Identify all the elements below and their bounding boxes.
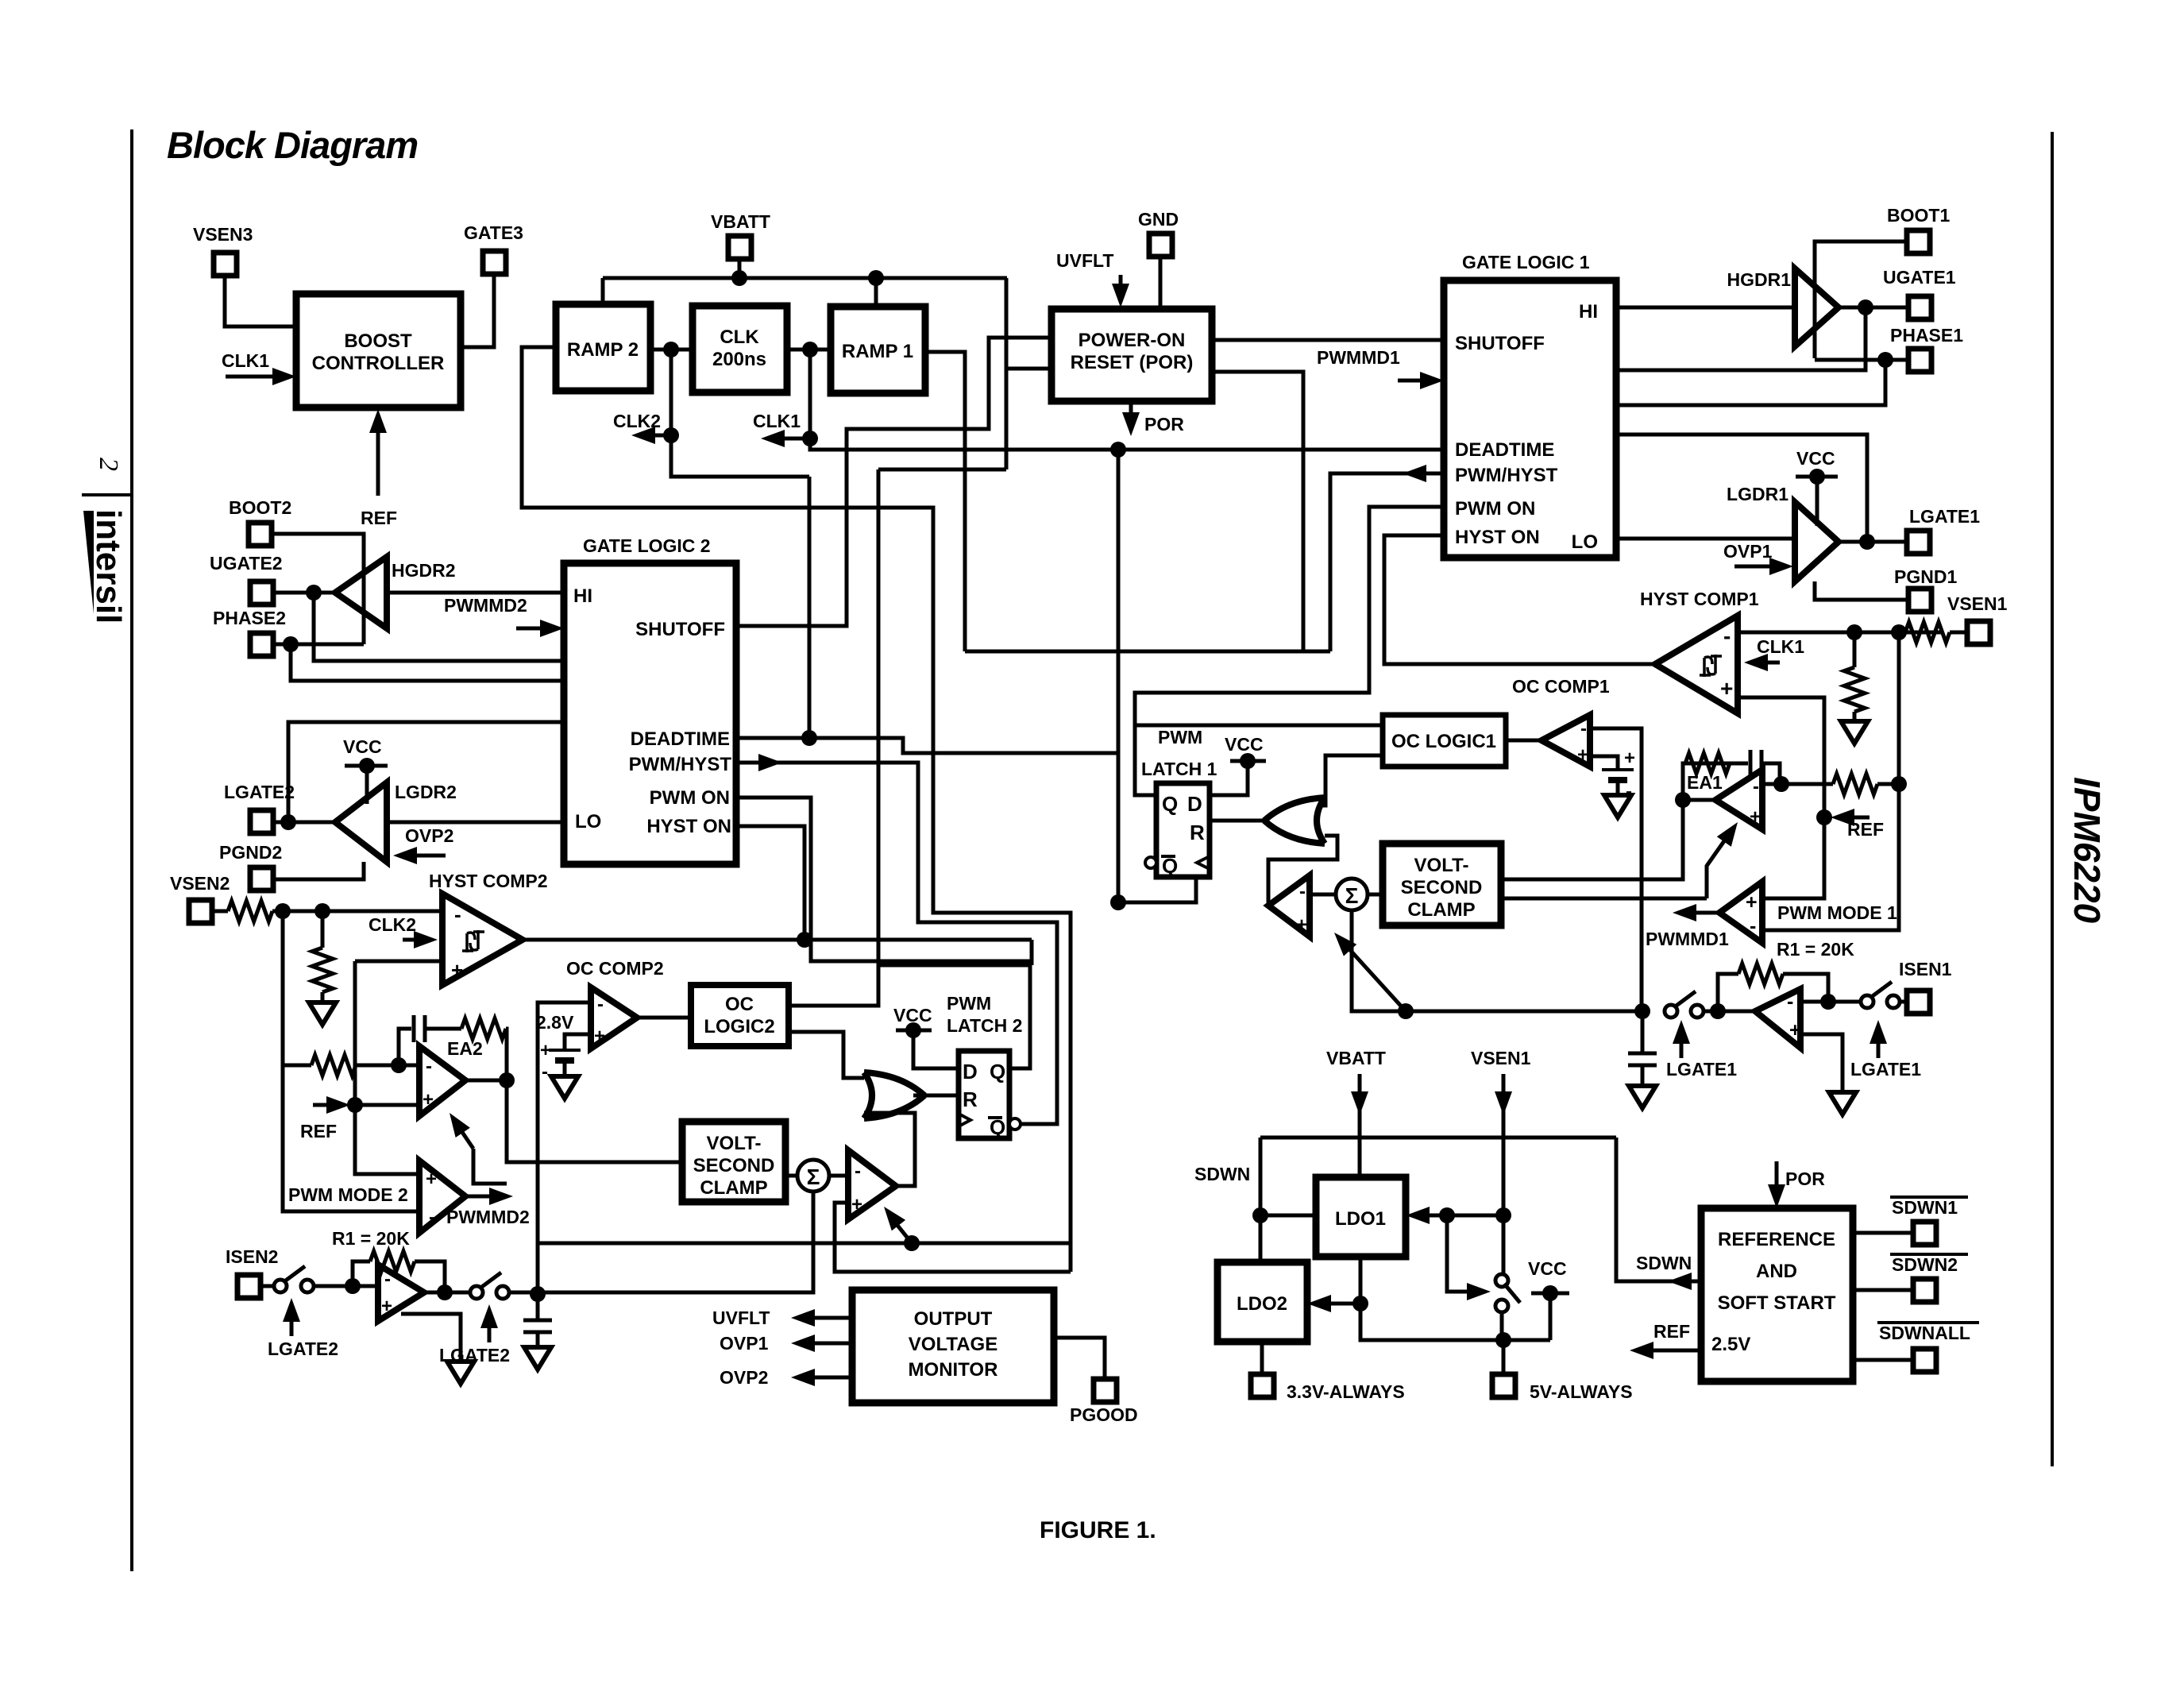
svg-text:SDWN: SDWN (1194, 1164, 1250, 1184)
wire CMP2 out (864, 1113, 915, 1186)
resistor R1 ch2 (353, 1251, 445, 1292)
svg-text:SHUTOFF: SHUTOFF (1455, 333, 1545, 354)
summer sigma2 (797, 1160, 829, 1192)
ground ISEN1 (1829, 1092, 1856, 1114)
svg-text:-: - (1580, 718, 1587, 740)
label VCC latch2 (893, 1005, 932, 1026)
svg-text:LATCH 2: LATCH 2 (947, 1015, 1022, 1036)
wire RAMP2-CLK (650, 348, 693, 352)
title Block Diagram (167, 124, 418, 166)
block GATE LOGIC 2 (564, 563, 736, 864)
ground battery2 (551, 1076, 578, 1099)
wire EA1 minus (1762, 782, 1833, 786)
svg-text:VCC: VCC (1225, 734, 1264, 755)
wire LGATE1 arrow right (1870, 1020, 1887, 1058)
svg-text:+: + (451, 958, 463, 982)
svg-text:SECOND: SECOND (1401, 877, 1483, 898)
node vsen2 dot b (314, 903, 330, 919)
wire 3.3v stem (1260, 1342, 1264, 1374)
label OC COMP1 (1512, 676, 1610, 697)
svg-text:HYST ON: HYST ON (1455, 527, 1540, 548)
svg-text:HI: HI (573, 585, 592, 607)
svg-text:VCC: VCC (343, 736, 382, 757)
svg-text:SDWN: SDWN (1636, 1253, 1692, 1273)
block POWER-ON RESET (POR) (1051, 309, 1212, 401)
label GATE LOGIC 1 (1462, 252, 1590, 272)
wire FF1 Q out (1135, 507, 1444, 795)
wire VSEN1 to EA1 (1897, 632, 1901, 784)
wire UVFLT arrow ovm (791, 1309, 852, 1327)
wire OCC2 plus (565, 1034, 591, 1050)
comparator PWM MODE 2 (419, 1161, 465, 1233)
label OC COMP2 (566, 958, 664, 979)
wire EA1 out (1683, 798, 1715, 802)
wire VSEN2 res leads (211, 910, 283, 914)
node vsen1 dot a (1846, 624, 1862, 640)
svg-text:LO: LO (1572, 531, 1598, 553)
wire REF1 arrow (1816, 809, 1870, 826)
pin PGND1 (1894, 566, 1957, 612)
svg-text:+: + (1296, 914, 1307, 936)
driver LGDR1 (1727, 484, 1839, 581)
svg-text:PGND2: PGND2 (219, 842, 282, 863)
svg-text:PWMMD2: PWMMD2 (446, 1207, 530, 1227)
wire POR out lower (1212, 372, 1303, 651)
side text IPM6220 (2066, 777, 2108, 924)
svg-text:D: D (1187, 792, 1202, 816)
label CLK2 (613, 411, 661, 431)
switch LGATE2 (470, 1273, 509, 1299)
wire PGND2 (272, 862, 364, 879)
svg-text:VSEN1: VSEN1 (1947, 593, 2008, 614)
svg-text:3.3V-ALWAYS: 3.3V-ALWAYS (1287, 1381, 1405, 1402)
driver HGDR1 (1727, 268, 1839, 346)
wire PWMMD1 out arrow (1673, 904, 1719, 921)
node vsen1 ldo dot (1495, 1207, 1511, 1223)
label UVFLT ovm (712, 1308, 770, 1328)
svg-text:PWM: PWM (947, 993, 991, 1014)
or-gate OR2 (864, 1072, 924, 1118)
wire POR out SHUTOFF1 (1212, 338, 1444, 342)
svg-text:GATE LOGIC 2: GATE LOGIC 2 (583, 535, 711, 556)
svg-text:OVP1: OVP1 (720, 1333, 769, 1354)
svg-text:CLK1: CLK1 (222, 350, 269, 371)
svg-text:-: - (597, 994, 604, 1015)
svg-text:LGATE2: LGATE2 (224, 782, 295, 802)
wire LO1 (1616, 537, 1795, 541)
node VBATT-RAMP2 (601, 278, 605, 304)
page right border (2051, 132, 2054, 1466)
wire VCC tick latch1 (1210, 753, 1266, 795)
wire SDWNALL (1853, 1358, 1913, 1362)
svg-text:VSEN3: VSEN3 (193, 224, 253, 245)
wire switch to R1 node (1702, 1010, 1755, 1014)
svg-text:BOOT1: BOOT1 (1887, 205, 1950, 226)
wire sigma2 to cmp2 (829, 1174, 848, 1178)
wire OCC1 minus (1590, 728, 1642, 1011)
node LGDR1 out dot (1859, 534, 1875, 550)
wire PWM/HYST2 out (736, 763, 1057, 1124)
wire LGATE1 feedback (1616, 435, 1867, 542)
label LGATE2 right (439, 1345, 510, 1365)
wire OCC1 out (1506, 739, 1542, 743)
capacitor LGATE2 (523, 1294, 552, 1347)
intersil logo (83, 509, 128, 624)
label battery2 plus (540, 1040, 551, 1061)
node UGATE2 dot (306, 585, 322, 601)
arrow PWM/HYST2 (758, 754, 782, 771)
svg-text:DEADTIME: DEADTIME (1455, 439, 1554, 461)
summer sigma1 (1336, 879, 1368, 910)
svg-text:-: - (1753, 776, 1759, 798)
svg-text:VCC: VCC (1796, 448, 1835, 469)
pin VBATT (711, 211, 770, 259)
svg-text:CLK1: CLK1 (1757, 636, 1804, 657)
wire battery1 gnd lead (1616, 780, 1620, 795)
wire EA2 out to VSC2 (507, 1080, 682, 1162)
svg-text:+: + (426, 1168, 437, 1190)
wire EA2 fb mid (425, 1027, 461, 1031)
svg-text:Block Diagram: Block Diagram (167, 124, 418, 166)
node ISEN1 dot (1820, 994, 1836, 1010)
label REF out (1653, 1321, 1690, 1342)
block LDO2 (1217, 1262, 1307, 1342)
node EA1 out dot (1675, 792, 1691, 808)
label REF1 (1847, 819, 1884, 840)
wire divider2 gnd lead (321, 992, 325, 1002)
node EA2 minus dot (391, 1057, 407, 1073)
svg-text:UVFLT: UVFLT (712, 1308, 770, 1328)
block RAMP 1 (831, 307, 925, 393)
label OVP2 (405, 825, 453, 846)
wire VSC1 lower out (1501, 897, 1707, 901)
block VOLT-SECOND CLAMP 1 (1383, 844, 1501, 925)
wire VBATT to POR (1006, 278, 1053, 469)
wire GND stem (1159, 256, 1163, 309)
svg-text:CLK2: CLK2 (369, 914, 416, 935)
svg-text:PHASE1: PHASE1 (1890, 325, 1963, 346)
node LDO1 in dot (1439, 1207, 1455, 1223)
svg-text:VOLTAGE: VOLTAGE (909, 1334, 997, 1355)
svg-text:+: + (1577, 744, 1588, 766)
svg-text:LOGIC2: LOGIC2 (704, 1016, 774, 1037)
wire BOOT2 (271, 534, 364, 644)
wire HYST2 out (523, 938, 1032, 942)
resistor VSEN1 (1905, 622, 1950, 643)
wire UGATE2 (272, 591, 335, 595)
driver LGDR2 (335, 782, 457, 862)
node hyst on2 dot (797, 932, 812, 948)
wire UGATE1 feedback (1616, 307, 1866, 370)
block RAMP 2 (556, 304, 650, 391)
wire HYST1 minus (1738, 631, 1943, 635)
pin GATE3 (464, 222, 523, 274)
wire EA1 out down (1501, 800, 1683, 879)
comparator PWM CMP1 (1268, 875, 1310, 937)
svg-text:R: R (963, 1087, 978, 1111)
wire sigma1 down (1352, 910, 1642, 1011)
svg-text:LGDR2: LGDR2 (395, 782, 457, 802)
node ISEN2 dot (345, 1278, 361, 1294)
wire OCC2 out (637, 1016, 691, 1020)
svg-text:MONITOR: MONITOR (909, 1359, 998, 1381)
svg-text:Q: Q (990, 1060, 1005, 1083)
svg-text:PGOOD: PGOOD (1070, 1404, 1138, 1425)
comparator HYST COMP2 (442, 894, 523, 985)
block LDO1 (1316, 1177, 1406, 1257)
wire res to VSEN1 pin (1950, 631, 1967, 635)
resistor EA2 fb (461, 1018, 506, 1039)
svg-text:GND: GND (1138, 209, 1179, 230)
node RAMP2-CLK dot (663, 342, 679, 357)
pin LGATE2 (224, 782, 295, 833)
resistor EA1 fb (1685, 753, 1730, 774)
node POR net dot (1110, 442, 1126, 458)
label GATE LOGIC 2 (583, 535, 711, 556)
svg-text:GATE LOGIC 1: GATE LOGIC 1 (1462, 252, 1590, 272)
svg-text:Σ: Σ (807, 1165, 820, 1189)
pin VSEN3 (193, 224, 253, 276)
block OC LOGIC2 (691, 985, 789, 1046)
wire LDO2 in arrow (1307, 1295, 1360, 1312)
node SDWN dot (1252, 1207, 1268, 1223)
wire HI1 (1616, 306, 1795, 310)
wire LGATE1 arrow left (1673, 1020, 1690, 1058)
label EA2 (447, 1038, 483, 1059)
wire vsen to ldo1 node (1447, 1214, 1503, 1218)
svg-text:REF: REF (300, 1121, 337, 1141)
svg-text:VOLT-: VOLT- (707, 1133, 762, 1154)
svg-text:PWMMD1: PWMMD1 (1317, 347, 1400, 368)
node lgate1 cap dot (1634, 1003, 1650, 1019)
arrow PWM/HYST1 (1403, 465, 1426, 482)
wire SDWN2 (1853, 1288, 1913, 1292)
label OVP1 ovm (720, 1333, 769, 1354)
wire OR1 out (1210, 819, 1264, 823)
pin GND (1138, 209, 1179, 257)
label R1 = 20K (1777, 939, 1854, 960)
svg-text:-: - (454, 902, 461, 926)
svg-text:+: + (1720, 676, 1733, 701)
resistor EA2 input (311, 1055, 356, 1076)
wire divider gnd lead (1853, 712, 1857, 721)
wire OCL2 bottom out (789, 1032, 864, 1078)
svg-text:SDWN2: SDWN2 (1892, 1254, 1958, 1275)
caption FIGURE 1. (1040, 1517, 1156, 1543)
pin UGATE2 (210, 553, 283, 605)
ground divider2 (309, 1002, 336, 1025)
wire pwmhyst1 up (1330, 473, 1444, 651)
block CLK 200ns (693, 306, 787, 392)
wire RAMP1 out loop (925, 352, 965, 651)
wire VCC tick lgdr1 (1796, 469, 1838, 526)
page left border (130, 129, 133, 1571)
pin UGATE1 (1883, 267, 1956, 319)
svg-text:-: - (1787, 991, 1793, 1013)
svg-text:OC COMP2: OC COMP2 (566, 958, 664, 979)
svg-text:CLAMP: CLAMP (700, 1177, 767, 1199)
wire PGOOD (1054, 1338, 1105, 1379)
ground ISEN2 (447, 1362, 474, 1384)
svg-text:PWM/HYST: PWM/HYST (629, 754, 732, 775)
resistor EA1 input (1833, 774, 1877, 794)
wire PWM ON2 (736, 798, 1030, 1068)
svg-text:BOOST: BOOST (344, 330, 412, 352)
node R1 left dot (1710, 1003, 1726, 1019)
svg-text:VSEN1: VSEN1 (1471, 1048, 1531, 1068)
wire VSEN2 node line (283, 910, 442, 914)
svg-text:ISEN1: ISEN1 (1899, 959, 1952, 979)
svg-text:AND: AND (1756, 1261, 1797, 1282)
label OVP1 (1723, 541, 1773, 562)
wire HI2 (387, 591, 564, 595)
pin SDWNALL (1913, 1349, 1936, 1372)
wire softstart diag cmp1 (1334, 933, 1406, 1011)
wire PHASE2 (272, 643, 364, 647)
resistor divider2 (312, 948, 333, 992)
wire to cap2 node (507, 1291, 538, 1295)
wire LGATE2 feedback (288, 722, 564, 822)
wire SDWN vertical (1259, 1138, 1263, 1262)
wire CLK1 arrow (761, 430, 810, 447)
svg-text:POR: POR (1785, 1168, 1825, 1189)
svg-text:+: + (1789, 1019, 1801, 1041)
comparator OC COMP1 (1542, 715, 1590, 767)
wire REF2 arrow (313, 1096, 363, 1114)
wire EA2 input res leads (283, 1064, 419, 1068)
svg-text:REF: REF (1653, 1321, 1690, 1342)
wire OCL1 top left (1135, 724, 1383, 728)
svg-text:RESET (POR): RESET (POR) (1071, 352, 1194, 373)
pin PGND2 (219, 842, 282, 890)
label SDWNALL (1877, 1323, 1979, 1343)
label PWM LATCH 1 (1141, 727, 1217, 779)
svg-text:HYST ON: HYST ON (646, 816, 731, 837)
svg-text:LGATE1: LGATE1 (1909, 506, 1980, 527)
capacitor EA2 fb (414, 1015, 425, 1042)
svg-text:IPM6220: IPM6220 (2066, 777, 2108, 924)
wire POR ref arrow (1768, 1161, 1785, 1208)
node CLK1 dot (802, 431, 818, 446)
svg-text:2: 2 (94, 458, 123, 471)
svg-text:OC LOGIC1: OC LOGIC1 (1391, 731, 1496, 752)
node cap2 dot (530, 1286, 546, 1302)
wire softstart arrow EA2 (450, 1113, 473, 1149)
wire battery2 gnd lead (563, 1060, 567, 1076)
wire PWM MODE 2 lower (283, 1065, 419, 1211)
svg-text:200ns: 200ns (712, 349, 766, 370)
wire HYST2 plus (355, 960, 442, 964)
wire OVP1 arrow ovm (791, 1335, 852, 1352)
comparator PWM MODE 1 (1719, 882, 1762, 943)
wire VSEN3 to boost (225, 275, 298, 326)
wire SHUTOFF2 (736, 624, 847, 628)
comparator OC COMP2 (591, 987, 637, 1049)
label LGATE2 left (268, 1338, 338, 1359)
svg-text:RAMP 2: RAMP 2 (567, 339, 639, 361)
pin VSEN2 (170, 873, 230, 923)
label LGATE1 right (1850, 1059, 1921, 1080)
wire LDO1 in arrow (1406, 1207, 1447, 1224)
svg-text:R1 = 20K: R1 = 20K (332, 1228, 410, 1249)
wire LGATE1 (1839, 540, 1907, 544)
svg-text:OVP1: OVP1 (1723, 541, 1773, 562)
block BOOST CONTROLLER (296, 294, 461, 408)
svg-text:VSEN2: VSEN2 (170, 873, 230, 894)
wire PHASE1 feedback (1616, 360, 1885, 405)
wire SHUTOFF2 riser (736, 429, 965, 626)
label R1 = 20K ch2 (332, 1228, 410, 1249)
svg-text:SOFT START: SOFT START (1718, 1292, 1836, 1314)
comparator ISEN2 CMP (378, 1265, 424, 1321)
label battery1 plus (1624, 747, 1635, 769)
svg-text:-: - (855, 1161, 861, 1182)
svg-text:HGDR2: HGDR2 (392, 560, 456, 581)
label 2.8V (536, 1012, 574, 1033)
svg-text:R1 = 20K: R1 = 20K (1777, 939, 1854, 960)
svg-text:PWMMD1: PWMMD1 (1646, 929, 1729, 949)
svg-text:SHUTOFF: SHUTOFF (635, 619, 725, 640)
or-gate OR1 (1264, 798, 1325, 844)
label VBATT ldo (1326, 1048, 1386, 1068)
page number tick (82, 493, 132, 496)
resistor R1 ch1 (1718, 964, 1828, 1011)
wire EA2 out (465, 1079, 507, 1083)
wire LGATE2 arrow right (480, 1304, 498, 1342)
wire HYST1 out (1384, 535, 1655, 664)
wire UVFLT arrow (1112, 275, 1129, 307)
wire OR1 in bottom (1268, 836, 1337, 906)
label PWM LATCH 2 (947, 993, 1022, 1036)
svg-text:LDO2: LDO2 (1237, 1293, 1287, 1315)
svg-text:LGATE1: LGATE1 (1850, 1059, 1921, 1080)
wire switch to ISEN1 pin (1898, 1000, 1907, 1004)
node ISEN2 out dot (437, 1284, 453, 1300)
wire CLK1 stub (810, 350, 1444, 450)
svg-text:-: - (429, 1207, 435, 1228)
svg-text:CLK1: CLK1 (753, 411, 801, 431)
svg-text:REFERENCE: REFERENCE (1718, 1229, 1835, 1250)
label VCC latch1 (1225, 734, 1264, 755)
svg-text:PWM ON: PWM ON (650, 787, 730, 809)
wire UGATE1 (1839, 306, 1907, 310)
svg-text:-: - (1299, 881, 1306, 902)
label SDWN1 (1890, 1197, 1968, 1218)
node EA2 out dot (499, 1072, 515, 1088)
node HGDR1 out dot (1858, 299, 1873, 315)
block REFERENCE AND SOFT START (1701, 1208, 1853, 1381)
svg-text:BOOT2: BOOT2 (229, 497, 291, 518)
wire LGATE2 (272, 821, 335, 825)
driver HGDR2 (335, 557, 456, 628)
capacitor EA1 fb (1750, 750, 1761, 777)
svg-text:R: R (1190, 821, 1205, 844)
svg-text:+: + (381, 1296, 392, 1317)
wire REF out arrow (1630, 1342, 1701, 1359)
svg-text:2.5V: 2.5V (1711, 1334, 1750, 1355)
node PHASE2 dot (283, 636, 299, 652)
wire OCC2 minus (538, 1002, 591, 1294)
wire softstart diag EA1 (1707, 822, 1738, 898)
svg-text:UGATE1: UGATE1 (1883, 267, 1956, 288)
label HYST COMP2 (429, 871, 548, 891)
svg-text:VOLT-: VOLT- (1414, 855, 1469, 876)
svg-text:LGATE1: LGATE1 (1666, 1059, 1737, 1080)
label VCC lgdr2 (343, 736, 382, 757)
node CLK-RAMP1 dot (802, 342, 818, 357)
svg-text:OUTPUT: OUTPUT (914, 1308, 993, 1330)
label LGATE1 left (1666, 1059, 1737, 1080)
